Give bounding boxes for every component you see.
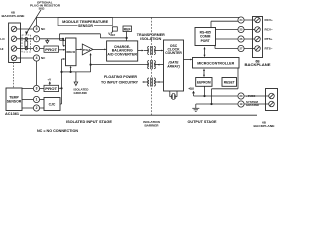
cold junction compensation CJC [44, 98, 60, 111]
wire pin 25 to screw [244, 29, 255, 31]
bottom stage boundary line [20, 114, 257, 116]
screw terminal row2 (+ input) [11, 36, 17, 42]
screw terminal row3 (- input) [11, 46, 17, 52]
wire temp sensor to pin 2 [22, 107, 33, 109]
floating common symbol on pin7 wire [46, 39, 49, 43]
wire RS-485 to pin 27 [215, 46, 238, 49]
junction VREF node [126, 37, 128, 39]
+V feed arrow (up) on PROT [49, 81, 51, 85]
svg-text:A/D CONVERTER: A/D CONVERTER [107, 52, 137, 56]
svg-text:REF: REF [111, 35, 116, 37]
svg-text:5: 5 [36, 27, 38, 31]
amplifier PGA [76, 44, 93, 55]
wire OSC to microcontroller [184, 59, 193, 61]
wire branch to MUX bottom [62, 66, 72, 72]
screw terminal row4 [11, 55, 17, 61]
protection block PROT (input) [44, 46, 59, 52]
svg-text:SENSOR: SENSOR [78, 24, 93, 28]
pin 1 [33, 96, 39, 102]
screw RCV+ [255, 17, 261, 23]
wire T3 floating power output arrow [142, 81, 148, 83]
svg-text:RESET: RESET [224, 80, 235, 84]
pin 6 [33, 45, 39, 51]
module temperature sensor symbol [111, 27, 117, 34]
svg-text:50Ω: 50Ω [39, 6, 45, 10]
svg-text:OUTPUT STAGE: OUTPUT STAGE [188, 120, 218, 124]
pin 3 [33, 85, 39, 91]
junction ground feed [210, 103, 212, 105]
svg-text:RTS−: RTS− [265, 47, 273, 51]
reference block REF [123, 26, 132, 32]
crystal Y1 [170, 91, 177, 99]
junction riser PROT [60, 87, 62, 89]
svg-text:+V: +V [47, 78, 51, 82]
dashed backplane link [13, 63, 15, 89]
svg-text:BARRIER: BARRIER [144, 123, 159, 127]
label ISOLATED GROUND [74, 87, 90, 95]
wire pin 7 to MUX input 2 [40, 38, 66, 47]
bidirectional bus RS-485 to microcontroller [204, 47, 206, 58]
svg-text:PGA: PGA [83, 48, 91, 52]
svg-text:FLOATING POWER: FLOATING POWER [104, 75, 138, 79]
+5V supply arrow [188, 87, 195, 96]
pin 2 [33, 105, 39, 111]
wire temp sensor to pin 3 [22, 88, 33, 90]
wire pin 19 to screw [244, 103, 269, 105]
transformer T3 (power to input) [148, 78, 156, 87]
wire pin 24 to screw [244, 19, 255, 21]
wire REF down to A/D converter [126, 32, 128, 41]
riser wire to MUX input 4 [62, 58, 66, 104]
wire pin 4 to pin 3 [36, 61, 38, 85]
svg-text:EEPROM: EEPROM [197, 80, 211, 84]
label: 6B BACKPLANE (top left) [2, 11, 25, 18]
wire pin 6 into PROT [40, 48, 44, 50]
isolated ground symbol [74, 72, 78, 86]
RS-485 comm port U3 [195, 28, 216, 46]
svg-text:ARRAY): ARRAY) [166, 64, 180, 68]
svg-text:7: 7 [36, 37, 38, 41]
label: OPTIONAL PLUG-IN RESISTOR 50 ohm [30, 0, 61, 10]
svg-text:CJC: CJC [49, 102, 56, 106]
wire rail down to isolated ground run [71, 65, 91, 72]
label SYSTEM GROUND [246, 100, 259, 107]
+5V rail wire [194, 95, 238, 97]
svg-text:ISOLATION: ISOLATION [140, 37, 162, 41]
svg-text:MICROCONTROLLER: MICROCONTROLLER [197, 61, 234, 65]
svg-text:BACKPLANE: BACKPLANE [245, 63, 271, 67]
oscillator clock counter U2 (gate array) [164, 40, 184, 91]
pin 7 [33, 36, 39, 42]
wire pin 26 to screw [244, 38, 255, 40]
svg-text:RCV−: RCV− [265, 28, 274, 32]
svg-text:RCV+: RCV+ [265, 18, 274, 22]
wire RS-485 to pin 25 [216, 29, 239, 31]
wire RS-485 to pin 26 [216, 38, 239, 40]
wire PGA to A/D converter [93, 49, 107, 51]
wire PROT to riser [59, 87, 62, 89]
svg-text:MUX: MUX [66, 50, 75, 54]
label 6B BACKPLANE (right lower) [254, 121, 275, 129]
ground symbol (output stage) [192, 104, 199, 111]
pin 20 [238, 93, 244, 99]
svg-text:+5V: +5V [188, 87, 195, 91]
pin 25 [238, 26, 244, 32]
screw RCV- [255, 27, 261, 33]
label ISOLATION BARRIER [143, 120, 160, 128]
wire pin 20 to screw [244, 95, 269, 97]
pin 24 [238, 17, 244, 23]
optional plug-in resistor R (dashed socket box) [22, 35, 31, 52]
junction +5V feed [203, 95, 205, 97]
svg-text:PORT: PORT [201, 39, 210, 43]
svg-text:PROT: PROT [45, 48, 57, 52]
comm terminal block (right upper) [253, 17, 263, 58]
svg-text:2: 2 [36, 106, 38, 110]
pin 5 [33, 26, 39, 32]
svg-text:PROT: PROT [45, 87, 57, 91]
svg-text:SENSOR: SENSOR [7, 99, 22, 103]
terminal block (left screw connector) [9, 23, 21, 63]
memory EEPROM U5 [196, 78, 212, 87]
floating power rail wire [91, 64, 148, 66]
wire OSC to T2 with arrow [155, 64, 163, 66]
wire RS-485 to pin 24 [211, 21, 238, 27]
wire floating power feed to PGA (arrow up) [90, 53, 92, 65]
transformer T2 (power) [148, 60, 156, 69]
svg-text:GROUND: GROUND [74, 91, 88, 95]
svg-text:REF: REF [124, 28, 131, 32]
screw +5VDC [269, 93, 275, 99]
microcontroller U4 [193, 58, 240, 69]
svg-text:COUNTER: COUNTER [165, 51, 182, 55]
wire T1 to OSC [155, 50, 163, 52]
wire OSC to T3 [155, 81, 163, 83]
svg-text:LO: LO [0, 37, 5, 41]
svg-text:TO INPUT CIRCUITRY: TO INPUT CIRCUITRY [101, 81, 139, 85]
svg-text:3: 3 [36, 87, 38, 91]
svg-text:BACKPLANE: BACKPLANE [2, 14, 25, 18]
wire pin 2 to CJC [40, 107, 44, 109]
wire screw2 to pin 7 [17, 38, 34, 40]
junction on floating power rail [90, 64, 92, 66]
wire screw1 to pin 5 [17, 28, 34, 30]
wire PROT to MUX input 3 [59, 49, 66, 51]
label VREF [108, 32, 115, 37]
wire EEPROM power feed [204, 86, 206, 96]
reset circuit RESET [222, 78, 237, 87]
label 6B BACKPLANE (right upper) [245, 59, 271, 67]
leader arrow to plug-in resistor [25, 10, 41, 35]
svg-text:AC1361: AC1361 [5, 112, 19, 116]
multiplexer MUX [66, 38, 77, 66]
wire A/D to transformer T1 [138, 50, 148, 52]
cold junction sensor TEMP SENSOR [6, 88, 22, 111]
label box MODULE TEMPERATURE SENSOR [58, 18, 112, 26]
protection block PROT (sensor) [44, 85, 59, 91]
transformer T1 (signal) [148, 46, 156, 55]
wire screw3 to pin 6 [17, 48, 34, 50]
svg-text:1: 1 [36, 98, 38, 102]
svg-text:ISOLATED INPUT STAGE: ISOLATED INPUT STAGE [66, 120, 113, 124]
wire pin 27 to screw [244, 48, 255, 50]
wire pin 1 to CJC [40, 99, 44, 101]
junction riser branch [60, 71, 62, 73]
ground rail wire [196, 103, 238, 105]
svg-text:RTS+: RTS+ [265, 37, 273, 41]
pin 26 [238, 36, 244, 42]
power terminal block (right lower) [266, 89, 278, 111]
bidirectional bus microcontroller to EEPROM [203, 69, 205, 78]
svg-text:BACKPLANE: BACKPLANE [254, 124, 275, 128]
label FLOATING POWER TO INPUT CIRCUITRY [101, 75, 139, 85]
pin 27 [238, 45, 244, 51]
charge-balancing A/D converter U1 [107, 41, 138, 61]
screw system ground [269, 101, 275, 107]
pin 19 [238, 101, 244, 107]
svg-text:NC = NO CONNECTION: NC = NO CONNECTION [37, 129, 79, 133]
screw terminal row1 [11, 26, 17, 32]
wire microcontroller to ground rail [212, 68, 239, 104]
wire screw4 to pin 4 [17, 57, 34, 59]
wire temp sensor to pin 1 [22, 99, 33, 101]
pin 4 [33, 55, 39, 61]
wire CJC to riser [60, 103, 62, 105]
svg-text:4: 4 [36, 56, 38, 60]
isolation barrier (dashed) [151, 18, 153, 116]
wire top border from pin 5 over to pin 24 [37, 17, 242, 26]
svg-text:PLUG-IN RESISTOR: PLUG-IN RESISTOR [30, 3, 61, 7]
screw RTS- [255, 46, 261, 52]
label TRANSFORMER ISOLATION [137, 33, 166, 41]
junction MUX bottom branch [70, 71, 72, 73]
wire pin 3 to PROT [40, 88, 44, 90]
svg-text:HI: HI [0, 47, 3, 51]
svg-text:6: 6 [36, 47, 38, 51]
wire VREF node to MUX input 1 [60, 34, 127, 41]
screw RTS+ [255, 36, 261, 42]
